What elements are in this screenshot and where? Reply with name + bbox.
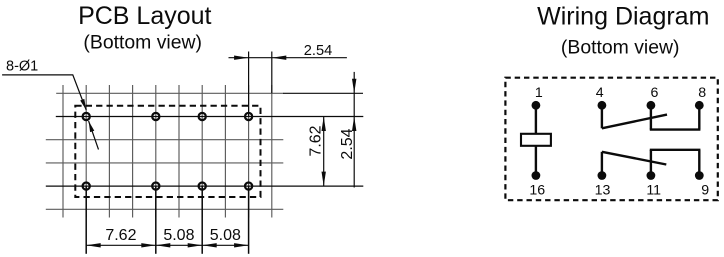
- pin 6: [647, 85, 659, 110]
- extension line col 271.8 up: [271, 52, 273, 94]
- grid: [46, 85, 283, 218]
- title PCB Layout: [78, 2, 211, 30]
- wire hole-row line bottom: [46, 185, 364, 187]
- svg-text:9: 9: [701, 182, 709, 198]
- contact bottom: link 11-9: [650, 149, 701, 151]
- hole H4: [245, 113, 252, 120]
- subtitle (Bottom view) left: [83, 31, 202, 53]
- hole H2: [152, 113, 159, 120]
- svg-text:7.62: 7.62: [308, 125, 325, 156]
- svg-text:2.54: 2.54: [339, 128, 356, 159]
- contact top: wire pin 6: [650, 105, 652, 129]
- svg-text:Wiring Diagram: Wiring Diagram: [537, 3, 709, 31]
- svg-text:6: 6: [650, 85, 658, 101]
- pin 1: [532, 85, 543, 110]
- extension line col 248.6 up: [248, 52, 250, 117]
- subtitle (Bottom view) right: [561, 36, 680, 58]
- pin 13: [595, 171, 611, 198]
- contact bottom: wire pin 9: [698, 150, 700, 176]
- contact bottom: wire pin 13: [601, 152, 603, 176]
- svg-text:4: 4: [596, 85, 604, 101]
- svg-text:5.08: 5.08: [210, 227, 241, 244]
- wire top-grid-line extension right: [283, 92, 363, 94]
- svg-text:5.08: 5.08: [163, 227, 194, 244]
- svg-text:1: 1: [535, 85, 543, 101]
- contact top: wire pin 8: [698, 105, 700, 129]
- contact bottom: blade: [602, 152, 666, 165]
- svg-text:8: 8: [698, 85, 706, 101]
- dimension 7.62 right: [308, 117, 326, 187]
- dimension 2.54 right: [339, 72, 356, 188]
- coil K1: [521, 105, 551, 175]
- contact top: link 6-8: [650, 128, 701, 130]
- dimension 2.54 top: [229, 43, 347, 60]
- pin 11: [646, 171, 661, 198]
- wire hole-row line top: [56, 116, 364, 118]
- contact top: wire pin 4: [601, 105, 603, 128]
- label 8-Ø1: [6, 59, 38, 75]
- hole H8: [245, 183, 252, 190]
- svg-text:(Bottom view): (Bottom view): [561, 36, 680, 58]
- PCB outline dashed: [75, 106, 260, 197]
- svg-text:PCB Layout: PCB Layout: [78, 2, 211, 30]
- svg-text:(Bottom view): (Bottom view): [83, 31, 202, 53]
- hole H6: [152, 183, 159, 190]
- svg-text:13: 13: [595, 182, 611, 198]
- extension lines bottom columns: [86, 186, 248, 254]
- pin 9: [695, 171, 709, 198]
- svg-text:11: 11: [646, 182, 661, 198]
- leader 8-Ø1: [2, 75, 98, 150]
- hole H5: [83, 183, 90, 190]
- hole H7: [199, 183, 206, 190]
- svg-text:8-Ø1: 8-Ø1: [6, 59, 38, 75]
- svg-text:2.54: 2.54: [304, 43, 332, 59]
- hole H1: [83, 113, 90, 120]
- hole H3: [199, 113, 206, 120]
- pin 4: [596, 85, 607, 110]
- pin 8: [695, 85, 706, 110]
- wiring diagram border: [505, 78, 717, 201]
- dimension 5.08 bottom second: [202, 227, 248, 248]
- dimension 5.08 bottom first: [156, 227, 202, 248]
- dimension 7.62 bottom: [86, 227, 156, 248]
- contact top: blade: [602, 115, 667, 129]
- title Wiring Diagram: [537, 3, 709, 31]
- svg-text:16: 16: [529, 182, 545, 198]
- pin 16: [529, 171, 545, 198]
- svg-text:7.62: 7.62: [105, 227, 136, 244]
- contact bottom: wire pin 11: [650, 150, 652, 176]
